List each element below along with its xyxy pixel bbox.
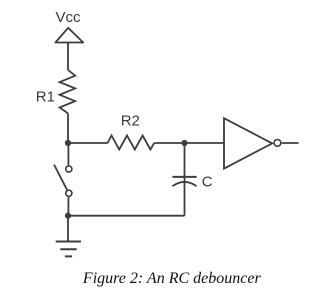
wire node A to R2: [68, 142, 108, 144]
svg-text:Vcc: Vcc: [56, 9, 82, 26]
resistor R2: [108, 136, 155, 150]
svg-text:Figure 2: An RC debouncer: Figure 2: An RC debouncer: [82, 270, 262, 287]
wire switch to node C: [67, 197, 69, 216]
wire node C to ground: [67, 216, 69, 242]
resistor R1: [60, 70, 76, 114]
svg-text:R2: R2: [121, 113, 140, 130]
node C junction dot: [65, 213, 71, 219]
svg-text:R1: R1: [36, 88, 55, 105]
switch bottom contact: [66, 190, 72, 196]
switch top contact: [66, 166, 72, 172]
wire R1 to node A: [67, 113, 69, 143]
inverter U1: [224, 118, 272, 168]
wire node B to capacitor and bottom rail: [184, 143, 186, 216]
wire R2 to node B: [154, 142, 184, 144]
ground: [56, 242, 81, 257]
wire node B to inverter input: [185, 142, 225, 144]
wire node A to switch: [67, 143, 69, 165]
power symbol Vcc: [55, 28, 84, 43]
node B junction dot: [181, 140, 187, 146]
svg-text:C: C: [202, 173, 213, 190]
capacitor C curved plate: [172, 182, 196, 186]
node A junction dot: [65, 140, 71, 146]
switch lever: [54, 165, 67, 190]
wire inverter output: [282, 142, 299, 144]
inverter output bubble: [274, 140, 281, 147]
capacitor C top plate: [172, 176, 196, 178]
wire bottom rail to capacitor: [68, 215, 185, 217]
wire Vcc to R1: [67, 43, 69, 70]
